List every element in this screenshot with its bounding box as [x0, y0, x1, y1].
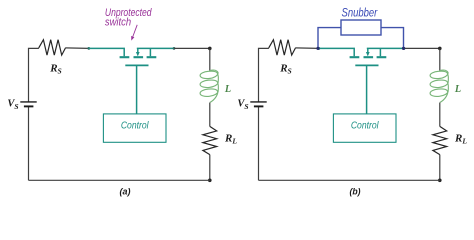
wire: rail resistor to switch (a): [65, 47, 89, 50]
transistor switch: body tick with arrow (b): [367, 48, 369, 52]
annotation arrow to switch: [133, 25, 137, 37]
svg-text:(a): (a): [120, 186, 131, 197]
inductor L coil (b): [430, 70, 448, 102]
battery VS: short plate (a): [24, 105, 34, 107]
transistor switch: gate plate (b): [355, 64, 378, 66]
wire: RL to bottom-right corner (b): [439, 155, 441, 181]
wire: battery to bottom rail (a): [28, 106, 30, 180]
transistor switch: body contact bar (a): [134, 56, 144, 58]
wire: inductor to RL (b): [439, 103, 441, 127]
wire: RL to bottom-right corner (a): [209, 155, 211, 181]
wire: gate to control (b): [366, 65, 368, 114]
transistor switch: gate plate (a): [125, 64, 148, 66]
node: source-side junction (b): [317, 47, 320, 50]
node: drain-side junction (a): [173, 47, 176, 50]
transistor switch: source lead (b): [319, 48, 354, 56]
node: bottom-right corner junction (a): [208, 179, 212, 183]
svg-text:L: L: [224, 84, 231, 95]
wire: top rail left segment (a): [29, 48, 39, 102]
resistor RL (a): [203, 126, 217, 154]
wire: top rail left segment (b): [259, 48, 269, 102]
transistor switch: drain contact bar (b): [377, 56, 387, 58]
battery VS: short plate (b): [254, 105, 264, 107]
wire: rail switch to top-right corner (b): [404, 47, 440, 49]
control box (a): [103, 114, 166, 142]
wire: right wire corner to inductor (b): [439, 48, 441, 70]
svg-text:(b): (b): [350, 186, 361, 197]
wire: inductor to RL (a): [209, 103, 211, 127]
resistor RS (b): [269, 40, 296, 55]
svg-text:Snubber: Snubber: [342, 6, 379, 20]
wire: bottom rail (a): [29, 179, 210, 181]
node: snubber right junction: [402, 47, 405, 50]
svg-text:L: L: [454, 84, 461, 95]
transistor switch: source lead (a): [89, 48, 124, 56]
wire: rail resistor to switch (b): [295, 47, 319, 50]
control box (b): [333, 114, 396, 142]
transistor switch: source contact bar (a): [120, 56, 130, 58]
resistor RL (b): [433, 126, 447, 154]
node: snubber left junction: [316, 47, 319, 50]
svg-text:switch: switch: [105, 16, 131, 28]
transistor switch: drain lead (a): [137, 48, 174, 56]
wire: snubber right lead: [381, 28, 404, 49]
node: top-right corner junction (b): [438, 47, 442, 51]
snubber network box: [341, 20, 381, 35]
transistor switch: body tick with arrow (a): [137, 48, 139, 52]
svg-text:Control: Control: [121, 121, 149, 132]
transistor switch: drain contact bar (a): [147, 56, 157, 58]
node: drain-side junction (b): [403, 47, 406, 50]
wire: snubber left lead: [318, 28, 341, 49]
wire: bottom rail (b): [259, 179, 440, 181]
inductor L coil (a): [200, 70, 218, 102]
wire: battery to bottom rail (b): [258, 106, 260, 180]
wire: right wire corner to inductor (a): [209, 48, 211, 70]
battery VS: long plate (a): [20, 101, 36, 103]
node: source-side junction (a): [87, 47, 90, 50]
resistor RS (a): [39, 40, 66, 55]
node: top-right corner junction (a): [208, 47, 212, 51]
svg-text:Control: Control: [351, 121, 379, 132]
transistor switch: body contact bar (b): [364, 56, 374, 58]
transistor switch: source contact bar (b): [350, 56, 360, 58]
transistor switch: drain lead (b): [367, 48, 404, 56]
node: bottom-right corner junction (b): [438, 179, 442, 183]
wire: gate to control (a): [136, 65, 138, 114]
battery VS: long plate (b): [250, 101, 266, 103]
wire: rail switch to top-right corner (a): [174, 47, 210, 49]
